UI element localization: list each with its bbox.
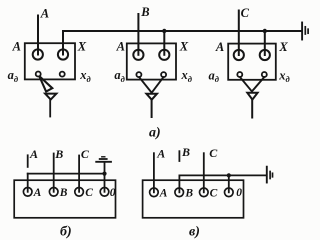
svg-text:C: C [81, 147, 90, 161]
svg-text:A: A [29, 147, 38, 161]
svg-text:0: 0 [236, 187, 242, 199]
svg-text:C: C [210, 187, 218, 199]
svg-text:B: B [184, 187, 193, 199]
svg-text:0: 0 [110, 187, 116, 199]
svg-text:X: X [278, 40, 288, 54]
svg-text:A: A [156, 147, 165, 161]
svg-text:A: A [40, 7, 49, 21]
svg-text:A: A [116, 40, 125, 54]
svg-text:A: A [12, 39, 21, 53]
svg-text:C: C [85, 187, 93, 199]
svg-text:в): в) [189, 225, 200, 240]
svg-text:A: A [33, 187, 42, 199]
svg-text:B: B [181, 145, 190, 159]
svg-text:X: X [179, 40, 189, 54]
svg-text:б): б) [60, 225, 72, 240]
svg-text:A: A [159, 187, 168, 199]
svg-text:C: C [241, 6, 250, 20]
svg-text:B: B [54, 147, 63, 161]
svg-text:X: X [77, 39, 87, 53]
svg-text:B: B [59, 187, 68, 199]
svg-text:B: B [140, 5, 149, 19]
svg-text:A: A [215, 40, 224, 54]
svg-text:C: C [209, 146, 218, 160]
svg-text:a): a) [149, 125, 161, 140]
